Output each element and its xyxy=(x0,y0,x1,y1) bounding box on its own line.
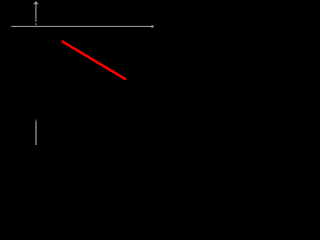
x-axis left faded tip xyxy=(11,25,12,27)
red line segment xyxy=(62,41,126,79)
y-axis upper segment xyxy=(35,4,37,22)
y-axis lower segment mid fade xyxy=(35,120,37,121)
y-axis lower segment xyxy=(35,121,37,145)
y-axis arrowhead xyxy=(33,1,39,4)
y-axis dash above origin xyxy=(35,23,37,25)
x-axis arrowhead xyxy=(152,25,155,29)
x-axis xyxy=(12,25,152,27)
y-axis lower segment fade-in tip xyxy=(35,119,37,121)
